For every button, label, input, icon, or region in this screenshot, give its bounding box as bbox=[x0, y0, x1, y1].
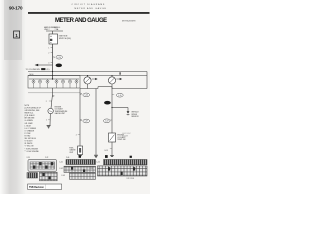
svg-text:SENSOR: SENSOR bbox=[131, 116, 139, 118]
svg-text:2: 2 bbox=[76, 134, 77, 136]
svg-text:CIRCUIT DIAGRAMS: CIRCUIT DIAGRAMS bbox=[72, 3, 106, 6]
svg-text:C-02: C-02 bbox=[59, 168, 63, 170]
wire temp unit to ground bbox=[49, 114, 51, 126]
svg-text:4G63 SOHC: 4G63 SOHC bbox=[122, 133, 132, 135]
svg-text:ENGINE: ENGINE bbox=[122, 135, 128, 137]
connector view right big grid bbox=[98, 166, 148, 176]
gauge G2 pointer tag bbox=[116, 78, 119, 80]
svg-text:C-04: C-04 bbox=[84, 95, 88, 97]
junction block mark 2 bbox=[105, 155, 108, 158]
rail step bridge bbox=[98, 86, 112, 88]
svg-text:C-67: C-67 bbox=[84, 121, 88, 123]
wire meter ground line bbox=[95, 89, 97, 155]
left margin scan shadow bbox=[0, 0, 26, 194]
connector C-09 bbox=[104, 119, 113, 123]
ground fuel unit bbox=[78, 156, 81, 157]
connector view right stripes bbox=[104, 160, 148, 165]
ground speed line bbox=[110, 155, 114, 156]
svg-text:SWITCH (IG1): SWITCH (IG1) bbox=[59, 38, 72, 40]
pin label E-13 bbox=[110, 148, 112, 150]
connector view C-23 body bbox=[28, 160, 57, 172]
lamp box second bottom line bbox=[28, 92, 80, 94]
junction block mark 3 bbox=[130, 156, 132, 158]
svg-text:C-09: C-09 bbox=[105, 121, 109, 123]
connector C-22 shaded bbox=[104, 101, 111, 105]
temperature gauge unit U1 bbox=[48, 108, 53, 113]
header thick rule bbox=[28, 12, 150, 14]
lamp L6 bbox=[69, 79, 72, 88]
svg-text:TO COLUMN SW: TO COLUMN SW bbox=[26, 69, 40, 71]
wire G1 drop bbox=[87, 84, 89, 89]
node lamp bus junction bbox=[52, 78, 53, 79]
svg-text:METER AND GAUGE: METER AND GAUGE bbox=[75, 7, 107, 10]
illumination lamp box bbox=[28, 76, 80, 89]
connector view mid grid 2 bbox=[70, 173, 96, 179]
TSB revision box bbox=[28, 184, 62, 189]
lamp L7 bbox=[75, 79, 78, 88]
svg-text:GAUGE UNIT: GAUGE UNIT bbox=[55, 112, 66, 115]
node speed branch bbox=[111, 107, 112, 108]
coolant temp switch U3 bbox=[109, 133, 116, 142]
pin tick fuel bbox=[78, 134, 80, 136]
gauge G1 temperature gauge bbox=[84, 75, 91, 84]
lamp L3 bbox=[46, 79, 49, 88]
svg-text:C-22: C-22 bbox=[45, 157, 48, 159]
connector view row2 left grid bbox=[40, 172, 58, 181]
connector view row2 left stripes bbox=[27, 173, 38, 178]
sheet reference box 1 bbox=[14, 31, 20, 38]
connector view mid stripes bbox=[66, 160, 96, 165]
ground meter bbox=[94, 155, 98, 157]
node main feed to bus bbox=[52, 71, 53, 72]
connector C-67 bbox=[80, 119, 89, 123]
svg-text:C-10: C-10 bbox=[118, 95, 122, 97]
lamp L1 bbox=[32, 79, 35, 88]
svg-text:(2) B: BLACK: (2) B: BLACK bbox=[25, 114, 36, 117]
tick fuel line bbox=[80, 93, 82, 95]
svg-text:E-13: E-13 bbox=[105, 150, 108, 152]
svg-text:TSB Revision: TSB Revision bbox=[29, 187, 44, 189]
svg-text:UNIT: UNIT bbox=[69, 152, 73, 154]
svg-text:1: 1 bbox=[48, 47, 49, 49]
connector C-21 shaded bbox=[56, 64, 62, 68]
combination meter bus upper bbox=[28, 71, 147, 73]
svg-text:13P CONN: 13P CONN bbox=[127, 178, 134, 180]
wire branch to illumination bbox=[38, 64, 53, 66]
svg-text:TEMP. SW: TEMP. SW bbox=[117, 139, 126, 141]
svg-text:MITSUBISHI: MITSUBISHI bbox=[122, 21, 136, 23]
svg-text:2-13: 2-13 bbox=[27, 157, 30, 159]
wire color legend bbox=[25, 105, 41, 153]
vehicle speed sensor Q1 bbox=[127, 111, 130, 115]
svg-text:C-06: C-06 bbox=[66, 157, 69, 159]
wire temp sender line bbox=[51, 88, 53, 96]
lamp L4 bbox=[55, 79, 58, 88]
pin tick 4 bbox=[51, 61, 53, 63]
lamp L2 bbox=[39, 79, 42, 88]
svg-text:C-20: C-20 bbox=[57, 57, 61, 59]
gauge G1 pointer tag bbox=[92, 78, 95, 80]
tick c10 bbox=[112, 94, 114, 96]
lamp L5 bbox=[62, 79, 65, 88]
tick temp line bbox=[52, 95, 54, 97]
svg-text:1: 1 bbox=[46, 120, 47, 122]
svg-text:METER AND GAUGE: METER AND GAUGE bbox=[55, 18, 107, 24]
connector C-10 bbox=[116, 93, 123, 97]
wire G2 drop bbox=[111, 84, 113, 89]
wire branch to speed sensor bbox=[112, 107, 128, 109]
connector C-20 bbox=[53, 55, 62, 59]
page background bbox=[0, 0, 150, 194]
svg-text:C-01: C-01 bbox=[59, 162, 63, 164]
wire battery feed horizontal bbox=[46, 30, 63, 32]
meter bottom rail bbox=[80, 88, 98, 90]
arrow to other sheet bbox=[35, 64, 39, 66]
pin tick 2 bbox=[51, 51, 53, 53]
gauge G2 fuel gauge bbox=[108, 75, 115, 84]
svg-text:2: 2 bbox=[48, 52, 49, 54]
pin label 2 bbox=[49, 100, 52, 102]
meter right edge bbox=[146, 72, 148, 89]
wire speed sensor line bbox=[111, 89, 113, 156]
svg-text:(1) FOR DETAILS OF: (1) FOR DETAILS OF bbox=[25, 106, 41, 109]
svg-text:90-170: 90-170 bbox=[9, 5, 23, 10]
svg-text:GR: GRAY: GR: GRAY bbox=[25, 122, 34, 125]
svg-text:C-11: C-11 bbox=[90, 168, 93, 170]
lamp bus bbox=[29, 78, 79, 80]
bus tag a bbox=[119, 72, 120, 74]
connector C-04 bbox=[83, 93, 90, 97]
wire fuel sender line bbox=[79, 89, 81, 147]
wire main feed vertical bbox=[52, 44, 54, 79]
ground temp unit bbox=[47, 126, 51, 128]
connector view mid grid bbox=[64, 166, 96, 172]
pin tick 1 bbox=[51, 46, 53, 48]
combination meter bus lower bbox=[28, 75, 147, 77]
svg-text:C-10: C-10 bbox=[96, 162, 100, 164]
svg-text:**: DOHC ENGINE: **: DOHC ENGINE bbox=[25, 151, 40, 153]
svg-text:4: 4 bbox=[48, 62, 49, 64]
wire feed drop bbox=[52, 31, 54, 34]
svg-text:O: ORANGE: O: ORANGE bbox=[25, 129, 35, 132]
ignition switch SW1 bbox=[49, 34, 58, 44]
svg-text:(IL): (IL) bbox=[47, 69, 50, 71]
svg-text:C-03: C-03 bbox=[61, 175, 65, 177]
svg-text:2: 2 bbox=[46, 101, 47, 103]
junction block mark 1 bbox=[79, 155, 81, 158]
svg-text:PAGE 90-4.: PAGE 90-4. bbox=[25, 112, 34, 115]
pin tick bbox=[48, 119, 50, 121]
fuel gauge unit U2 bbox=[78, 146, 83, 155]
